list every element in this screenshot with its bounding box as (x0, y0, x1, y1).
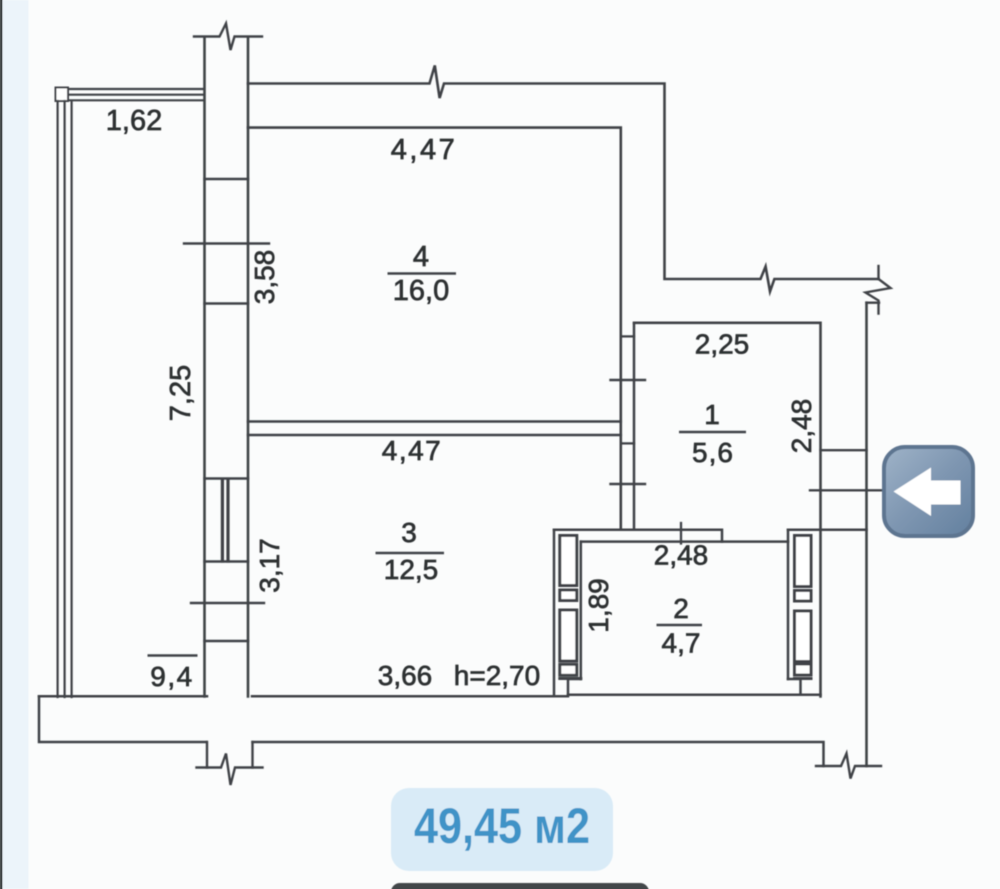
corner break zigzag (866, 279, 891, 314)
svg-text:49,45 м2: 49,45 м2 (414, 798, 590, 854)
left shaft blocks (560, 536, 577, 676)
svg-text:1,62: 1,62 (106, 105, 162, 137)
partition connector y443 (621, 442, 634, 444)
bottom exterior wall top line (39, 695, 207, 698)
room 2 bottom line (568, 693, 821, 696)
svg-text:h=2,70: h=2,70 (454, 660, 540, 691)
right strip segment y450 (821, 449, 867, 451)
partition cap tick (621, 335, 634, 337)
right wall top stub (867, 302, 880, 304)
left screen edge line (0, 0, 2, 889)
bottom exterior wall bottom line and left edge (39, 696, 207, 742)
wall opening tick y179 (205, 178, 249, 180)
svg-text:4,47: 4,47 (391, 134, 457, 166)
partition wall rooms 4/3 upper face (248, 420, 621, 423)
svg-text:2: 2 (673, 593, 689, 624)
bottom wall right part with corner (253, 742, 824, 766)
svg-text:7,25: 7,25 (165, 365, 197, 421)
room 2 top wall upper face left (554, 530, 722, 542)
dimension tick y243 for 3,58 (184, 242, 269, 244)
top exterior wall with break symbol (248, 66, 879, 292)
door tick y380 (611, 379, 646, 381)
wall opening tick y478 (205, 477, 249, 479)
room 2 left shaft wall (554, 530, 581, 697)
entry tab verticals (206, 742, 208, 768)
svg-text:2,48: 2,48 (654, 540, 709, 571)
svg-text:3,66: 3,66 (378, 660, 433, 691)
balcony left wall (triple line) (58, 101, 72, 697)
svg-text:12,5: 12,5 (384, 554, 439, 585)
room 2 top wall upper face right (788, 528, 867, 531)
right exterior wall (865, 303, 868, 766)
wall opening tick y303 (205, 302, 249, 304)
back button arrow (894, 468, 961, 517)
right shaft bottom band (788, 679, 801, 695)
dimension 9,4 with overline (148, 654, 198, 656)
door tick y484 (611, 483, 646, 485)
room 1 left wall face (633, 324, 636, 529)
area badge 49,45 m2 (391, 788, 613, 871)
room 1 top and right walls (634, 323, 821, 697)
top-right wall end tick (877, 266, 879, 279)
partition wall rooms 4/3 lower face (248, 434, 621, 437)
svg-text:2,48: 2,48 (786, 399, 817, 454)
svg-text:9,4: 9,4 (150, 661, 193, 692)
room 1 fraction line (679, 431, 746, 433)
wall opening tick y641 (205, 640, 249, 642)
entry cut tick with break (197, 754, 263, 786)
svg-text:3,58: 3,58 (249, 250, 280, 305)
room 4 top and right walls (248, 128, 621, 529)
svg-text:4: 4 (413, 241, 429, 273)
balcony corner post (56, 88, 69, 102)
right shaft blocks (795, 536, 812, 676)
wall opening tick y561 (205, 560, 249, 562)
room 2 right shaft wall inner face (787, 530, 790, 679)
bottom cut-off element (391, 883, 649, 889)
room 4 fraction line (388, 272, 457, 274)
svg-text:1,89: 1,89 (583, 578, 614, 633)
svg-text:2,25: 2,25 (695, 329, 750, 360)
room 2 fraction line (657, 624, 703, 626)
wall cut tick with break (top) (194, 24, 262, 51)
svg-text:1: 1 (704, 399, 720, 430)
dimension tick y603 for 3,17 (191, 602, 264, 604)
room 3 fraction line (376, 552, 445, 554)
svg-text:4,47: 4,47 (382, 435, 443, 466)
svg-text:5,6: 5,6 (692, 437, 734, 468)
svg-text:3: 3 (401, 517, 417, 548)
svg-text:3,17: 3,17 (254, 538, 285, 593)
main left wall column faces (203, 37, 206, 697)
left edge tint wash (3, 0, 29, 889)
svg-text:16,0: 16,0 (393, 275, 449, 307)
tick x681 on room2 wall (680, 523, 682, 544)
room 2 top wall lower face (581, 540, 788, 543)
svg-text:4,7: 4,7 (662, 628, 701, 659)
balcony window double bar (221, 481, 224, 562)
bottom-right cut tick with break (816, 754, 881, 779)
left shaft bottom band (568, 679, 581, 695)
dimension tick y490 (810, 489, 884, 491)
balcony top wall (triple line) (56, 89, 204, 100)
